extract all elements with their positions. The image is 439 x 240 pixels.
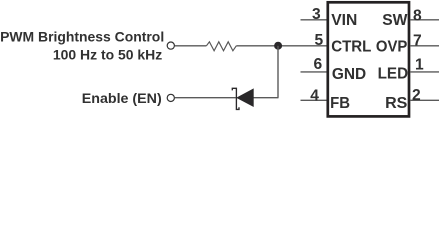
svg-text:3: 3 (312, 6, 321, 23)
wire: PWM input terminal to resistor (175, 45, 206, 47)
svg-text:PWM Brightness Control: PWM Brightness Control (0, 29, 164, 45)
svg-text:GND: GND (332, 66, 366, 83)
diode D1 triangle (anode, pointing left) (237, 89, 254, 107)
svg-text:1: 1 (415, 57, 424, 74)
svg-text:8: 8 (413, 7, 422, 24)
pin stub: pin 8 SW (410, 19, 439, 21)
svg-text:OVP: OVP (376, 39, 408, 56)
svg-text:VIN: VIN (331, 12, 357, 29)
op-amp/IC block U1 outline (328, 2, 409, 116)
svg-text:5: 5 (314, 32, 323, 49)
wire: resistor to CTRL pin (through junction) (236, 45, 326, 47)
svg-text:4: 4 (310, 87, 319, 104)
resistor R1 zigzag (206, 42, 236, 51)
pin stub: pin 4 FB (301, 99, 327, 101)
wire: diode anode to vertical branch (253, 97, 279, 99)
svg-text:SW: SW (382, 12, 407, 29)
wire: vertical from junction down to diode branch (277, 46, 279, 98)
diode D1 Schottky cathode bar (232, 88, 239, 109)
pin stub: pin 7 OVP (410, 45, 439, 47)
wire: Enable terminal to diode cathode (175, 97, 236, 99)
pin stub: pin 1 LED (410, 71, 439, 73)
pin stub: pin 2 RS (410, 99, 439, 101)
svg-text:RS: RS (385, 95, 407, 112)
pin stub: pin 3 VIN (301, 19, 327, 21)
svg-text:2: 2 (412, 87, 421, 104)
svg-text:FB: FB (330, 95, 350, 112)
svg-text:Enable (EN): Enable (EN) (82, 91, 162, 107)
svg-text:100 Hz to 50 kHz: 100 Hz to 50 kHz (53, 48, 162, 64)
node junction dot (274, 42, 282, 50)
svg-text:7: 7 (413, 33, 422, 50)
terminal: PWM input open circle (167, 42, 174, 49)
svg-text:6: 6 (314, 56, 323, 73)
svg-text:LED: LED (378, 65, 409, 82)
svg-text:CTRL: CTRL (331, 39, 372, 56)
pin stub: pin 6 GND (301, 71, 327, 73)
terminal: Enable open circle (167, 94, 174, 101)
